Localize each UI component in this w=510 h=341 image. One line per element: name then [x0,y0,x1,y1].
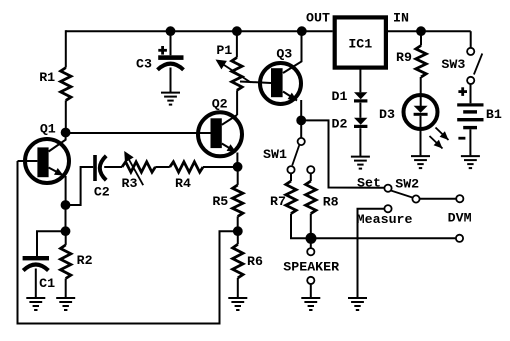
wire R7 bottom to junction [291,214,311,239]
switch SW2 Measure contact [384,205,391,212]
svg-text:D1: D1 [332,89,348,104]
wire C1 to ground [35,269,37,298]
switch SW3 top contact [467,48,474,55]
ground speaker [301,297,320,299]
terminal speaker upper [307,248,314,255]
node Q2 emitter / R4 / R5 junction [233,162,243,172]
wire SW1 to R8 [310,173,312,181]
Q1 collector lead [49,131,66,152]
switch SW3 bottom contact [467,77,474,84]
resistor R4 [170,162,203,172]
wire C3 to ground [170,68,172,93]
Q2 collector lead [222,115,237,125]
IC1 ground pin wire [359,68,361,93]
capacitor C3 [158,55,183,60]
svg-text:Q3: Q3 [276,47,292,62]
wire Measure contact to ground [358,209,385,298]
wire rail to R9 [420,31,422,45]
svg-text:SPEAKER: SPEAKER [283,260,339,275]
wire R4 to Q2 emitter node [203,166,238,168]
Q1 base lead [18,160,38,162]
switch SW1 contact R7 [287,166,294,173]
ground D3 [411,155,430,157]
node IN junction on rail [416,26,426,36]
Q3 collector lead [283,31,302,73]
svg-text:C3: C3 [136,57,152,72]
svg-text:SW1: SW1 [263,147,287,162]
wire R3 to R4 [155,166,170,168]
resistor R7 [286,181,296,214]
R3 wiper arrow [128,157,144,185]
wire B1 to ground [469,129,471,155]
transistor Q1 [25,139,69,183]
svg-text:IC1: IC1 [348,36,372,51]
wire D2 to ground [359,128,361,156]
node P1 junction on rail [232,26,242,36]
potentiometer P1 [232,58,242,91]
P1 wiper arrow [221,63,251,83]
resistor R2 [61,245,71,279]
svg-text:R8: R8 [323,194,339,209]
svg-text:R5: R5 [212,194,228,209]
wire top supply rail left section [66,30,333,32]
LED D3 emission arrow 1 [436,128,449,141]
wire drop to SW3 [470,31,472,48]
svg-text:C2: C2 [94,184,110,199]
Q2 emitter lead with arrow [222,144,236,153]
wire left drop from rail to R1 [65,30,67,67]
node Q1 collector junction [61,128,71,138]
wire C2 to R3 [104,166,122,168]
switch SW1 contact R8 [307,166,314,173]
wire junction to DVM lower terminal [311,237,455,239]
capacitor C2 [93,155,97,181]
terminal DVM lower [456,235,463,242]
diode D1 [354,92,367,99]
svg-text:R3: R3 [122,176,138,191]
node Q3 emitter junction [296,116,306,126]
ground C3 [161,92,180,94]
switch SW1 lever [292,145,299,165]
svg-text:Measure: Measure [357,212,413,227]
node speaker junction [306,233,317,244]
diode D2 [354,118,367,125]
capacitor C1 [23,256,49,260]
ground D1/D2 [351,156,370,158]
terminal DVM upper [456,195,463,202]
wire P1 bottom to Q3 base [240,82,271,84]
battery B1 plus sign [458,90,467,93]
switch SW3 lever [474,54,482,75]
svg-text:SW3: SW3 [441,57,465,72]
svg-text:SW2: SW2 [395,177,419,192]
wire Q1 emitter to node [65,176,67,205]
resistor R1 [61,68,71,101]
svg-text:D2: D2 [332,116,348,131]
ground C1 [26,297,45,299]
wire SW3 to battery [470,84,472,103]
IC U1 box IC1 [335,17,386,67]
svg-text:Set: Set [357,176,381,191]
svg-text:DVM: DVM [448,210,472,225]
wire R2 to ground [65,279,67,298]
wire Q3 emitter down to node [300,100,302,120]
wire P1 to Q2 collector [236,90,238,115]
wire rail to C3 [170,31,172,55]
node R2/C1 junction [61,226,71,236]
wire Q2 emitter to node [236,153,238,167]
wire R1 bottom to Q1 collector node [65,100,67,132]
wire D3 to ground [420,116,422,156]
wire top rail right section (IC1 IN side) [388,30,471,32]
svg-text:R1: R1 [39,70,55,85]
node Q1 emitter junction [61,200,71,210]
Q1 emitter lead with arrow [49,168,64,176]
wire Q3 emitter node to Set [301,120,384,187]
wire node to SW1 [300,120,302,137]
node R5/R6/feedback junction [233,226,243,236]
wire SW1 to R7 [290,173,292,181]
svg-text:R4: R4 [175,176,191,191]
resistor R6 [233,244,243,278]
switch SW2 lever [391,191,413,198]
wire emitter node to C2 [66,167,94,205]
Q3 emitter lead with arrow [283,92,297,101]
terminal speaker lower [307,277,314,284]
ground B1 [461,155,480,157]
transistor Q3 [260,63,301,104]
svg-text:R2: R2 [77,253,93,268]
svg-text:R9: R9 [396,50,412,65]
switch SW2 Set contact [384,185,391,192]
wire D1 to D2 [359,103,361,118]
wire Q1 base feedback loop [18,161,238,324]
wire emitter node down to R2 node [65,205,67,231]
svg-text:C1: C1 [39,276,55,291]
svg-text:Q2: Q2 [212,96,228,111]
wire speaker terminal to ground [310,284,312,297]
wire R9 to D3 [420,77,422,106]
wire node to R5 [237,167,239,185]
resistor R5 [233,185,243,217]
wire R8 bottom to junction [310,214,312,239]
wire node to R2 [65,231,67,245]
battery B1 [457,103,483,106]
switch SW1 pole contact [298,138,305,145]
Q2 base wire from Q1 collector [66,132,211,134]
svg-text:B1: B1 [486,107,502,122]
svg-text:Q1: Q1 [40,122,56,137]
wire SW2 pole to DVM terminal [420,198,456,200]
svg-text:R6: R6 [247,254,263,269]
wire node to R6 [237,231,239,244]
resistor R3 (trimmer) [122,162,155,172]
wire node to C1 [37,231,66,256]
svg-text:IN: IN [393,11,409,26]
wire R6 to ground [237,278,239,297]
LED D3 [404,95,438,129]
battery B1 minus sign [458,137,465,140]
wire rail to P1 [236,31,238,57]
wire R5 to node [237,216,239,231]
ground Measure [348,297,367,299]
resistor R8 [306,181,316,214]
svg-text:D3: D3 [379,107,395,122]
LED D3 emission arrow 2 [430,136,443,149]
transistor Q2 [198,112,242,156]
ground R2 [56,297,75,299]
node C3 junction on rail [166,26,176,36]
svg-text:P1: P1 [216,43,232,58]
svg-text:OUT: OUT [306,11,330,26]
resistor R9 [416,46,426,78]
capacitor C3 plus sign [158,49,167,52]
node OUT junction on rail [297,26,307,36]
svg-text:R7: R7 [270,194,286,209]
switch SW2 pole contact [412,195,419,202]
ground R6 [228,297,247,299]
wire junction to speaker terminal [310,238,312,248]
